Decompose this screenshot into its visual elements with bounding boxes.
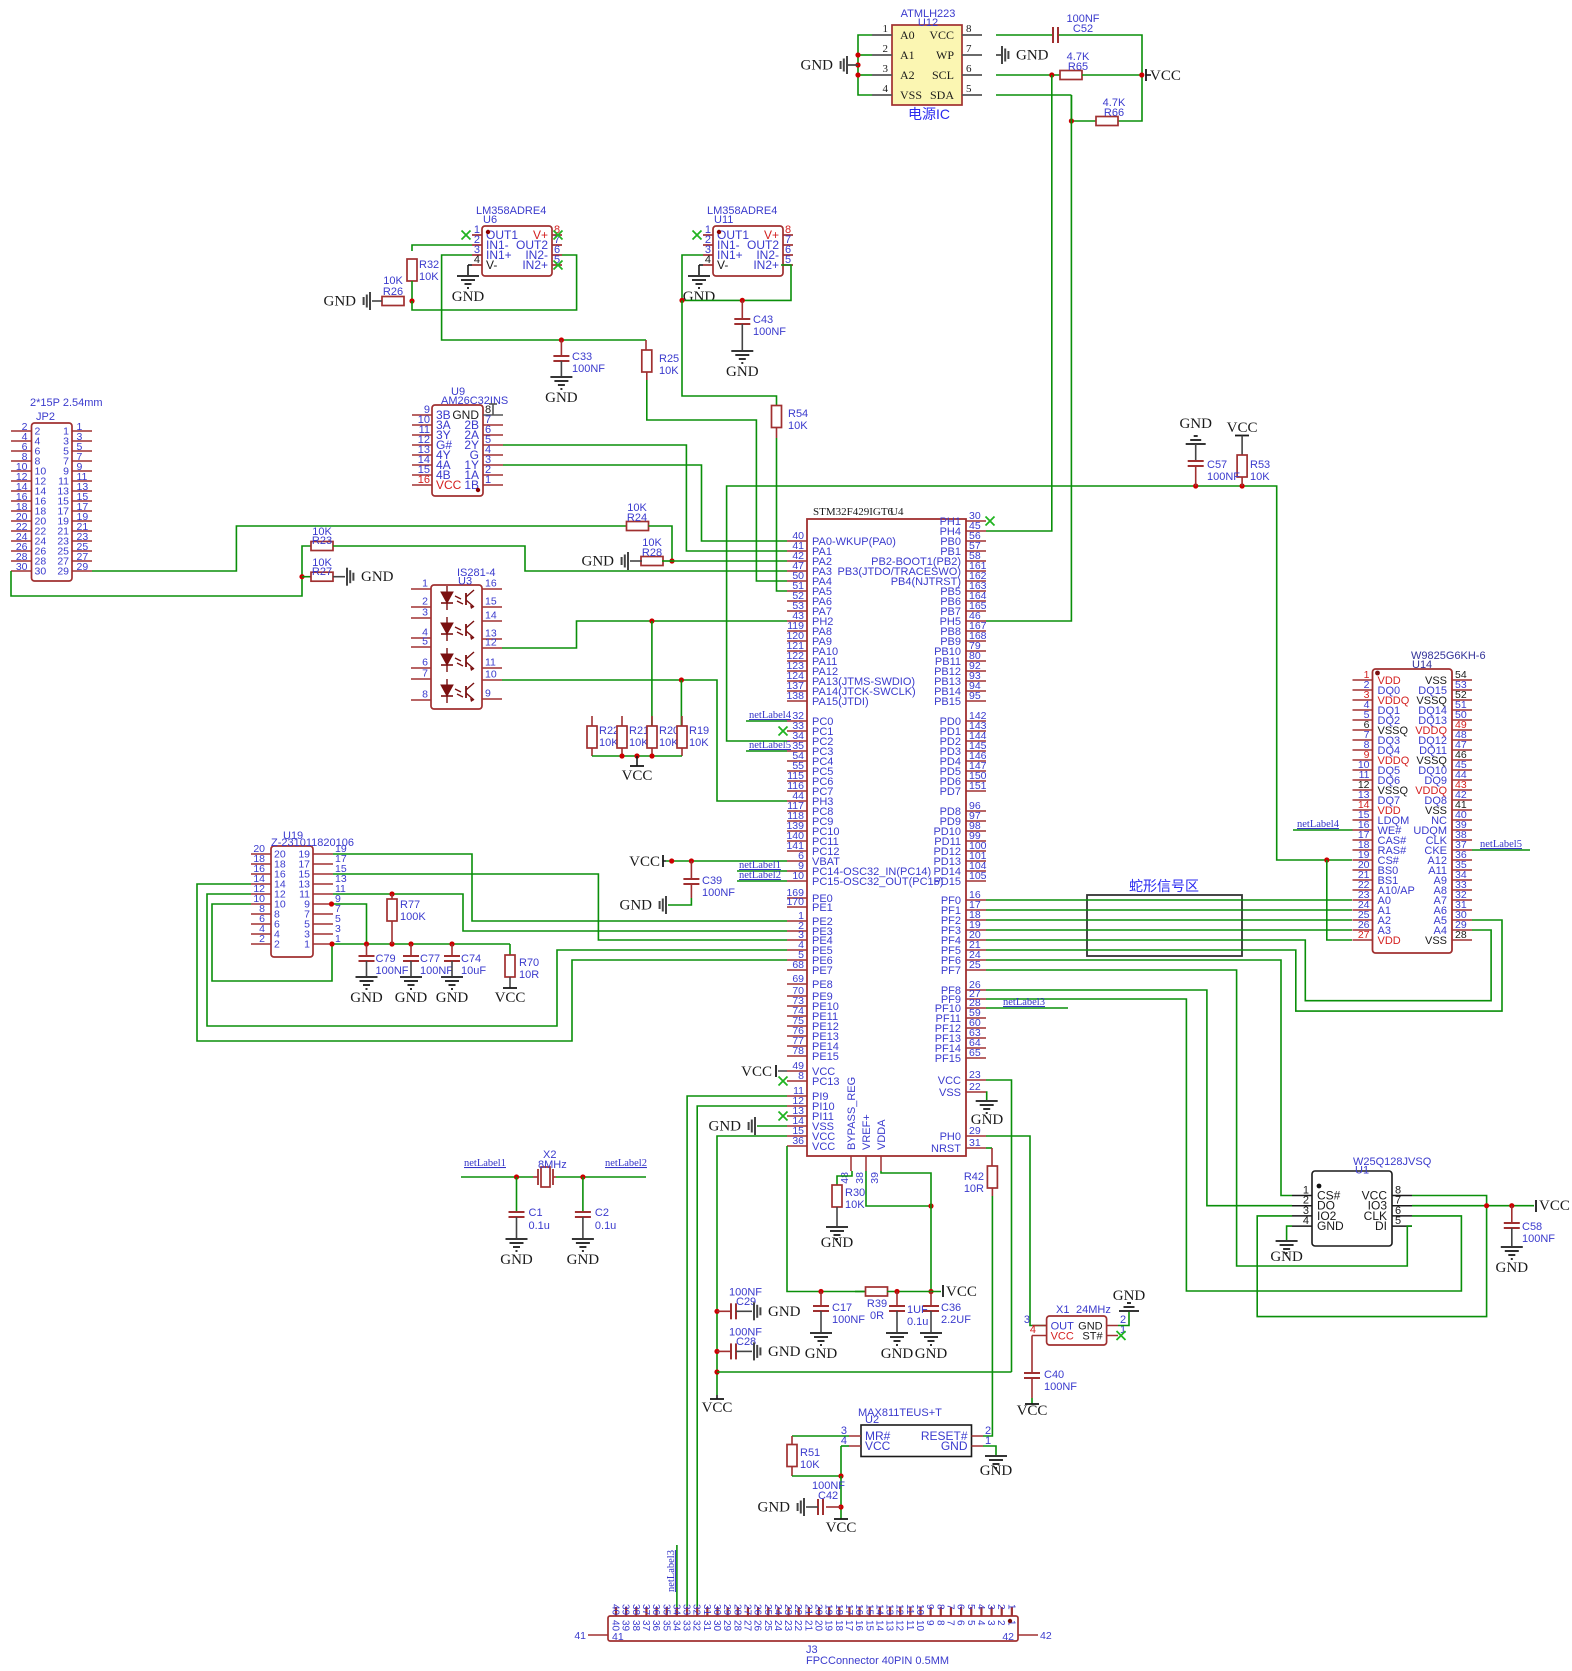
svg-text:GND: GND bbox=[350, 990, 383, 1006]
svg-text:IN2+: IN2+ bbox=[522, 258, 548, 272]
svg-text:29: 29 bbox=[721, 1620, 732, 1632]
svg-text:WP: WP bbox=[936, 48, 954, 62]
svg-text:PA15(JTDI): PA15(JTDI) bbox=[812, 696, 869, 708]
svg-text:10K: 10K bbox=[800, 1459, 820, 1471]
svg-text:ST#: ST# bbox=[1082, 1331, 1103, 1343]
svg-text:36: 36 bbox=[650, 1620, 661, 1632]
svg-text:R53: R53 bbox=[1250, 459, 1270, 471]
svg-text:100NF: 100NF bbox=[1044, 1381, 1077, 1393]
svg-text:41: 41 bbox=[612, 1631, 624, 1643]
svg-text:9: 9 bbox=[924, 1620, 935, 1626]
svg-text:32: 32 bbox=[691, 1620, 702, 1632]
svg-text:JP2: JP2 bbox=[36, 411, 55, 423]
svg-text:26: 26 bbox=[752, 1620, 763, 1632]
svg-text:4: 4 bbox=[883, 83, 889, 95]
svg-text:C42: C42 bbox=[818, 1490, 838, 1502]
svg-text:170: 170 bbox=[786, 896, 804, 908]
svg-text:13: 13 bbox=[884, 1620, 895, 1632]
svg-text:33: 33 bbox=[681, 1604, 692, 1616]
svg-text:GND: GND bbox=[395, 990, 428, 1006]
svg-text:42: 42 bbox=[1002, 1631, 1014, 1643]
svg-text:14: 14 bbox=[873, 1620, 884, 1632]
svg-text:AM26C32INS: AM26C32INS bbox=[441, 395, 508, 407]
svg-text:R23: R23 bbox=[312, 535, 332, 547]
svg-text:VCC: VCC bbox=[946, 1284, 977, 1300]
svg-text:10K: 10K bbox=[419, 271, 439, 283]
svg-text:U11: U11 bbox=[714, 214, 733, 226]
svg-text:R39: R39 bbox=[867, 1298, 887, 1310]
svg-text:38: 38 bbox=[630, 1620, 641, 1632]
svg-text:40: 40 bbox=[610, 1604, 621, 1616]
svg-text:36: 36 bbox=[650, 1604, 661, 1616]
svg-text:GND: GND bbox=[436, 990, 469, 1006]
svg-text:24: 24 bbox=[772, 1604, 783, 1616]
svg-text:38: 38 bbox=[630, 1604, 641, 1616]
svg-text:39: 39 bbox=[869, 1172, 881, 1184]
svg-text:10K: 10K bbox=[659, 365, 679, 377]
svg-text:GND: GND bbox=[801, 58, 834, 74]
svg-text:3: 3 bbox=[422, 607, 428, 619]
svg-text:VCC: VCC bbox=[1539, 1198, 1570, 1214]
svg-text:VCC: VCC bbox=[938, 1075, 961, 1087]
svg-text:PE8: PE8 bbox=[812, 979, 833, 991]
svg-text:20: 20 bbox=[813, 1604, 824, 1616]
svg-text:0.1u: 0.1u bbox=[529, 1220, 550, 1232]
svg-text:100NF: 100NF bbox=[1207, 471, 1240, 483]
svg-text:netLabel5: netLabel5 bbox=[1480, 839, 1522, 850]
svg-text:GND: GND bbox=[768, 1304, 801, 1320]
svg-text:GND: GND bbox=[620, 898, 653, 914]
svg-text:GND: GND bbox=[1270, 1249, 1303, 1265]
svg-text:27: 27 bbox=[741, 1604, 752, 1616]
svg-text:VDD: VDD bbox=[1378, 935, 1401, 947]
svg-text:GND: GND bbox=[324, 294, 357, 310]
svg-text:29: 29 bbox=[721, 1604, 732, 1616]
svg-text:VCC: VCC bbox=[826, 1520, 857, 1536]
svg-text:7: 7 bbox=[422, 668, 428, 680]
svg-text:IN2+: IN2+ bbox=[753, 258, 779, 272]
svg-text:PH0: PH0 bbox=[940, 1131, 961, 1143]
svg-text:10: 10 bbox=[485, 669, 497, 681]
svg-text:7: 7 bbox=[966, 43, 972, 55]
svg-text:5: 5 bbox=[965, 1620, 976, 1626]
svg-text:PF15: PF15 bbox=[935, 1053, 961, 1065]
svg-text:17: 17 bbox=[843, 1620, 854, 1632]
svg-text:R77: R77 bbox=[400, 899, 420, 911]
svg-text:VCC: VCC bbox=[1051, 1331, 1074, 1343]
svg-text:R25: R25 bbox=[659, 353, 679, 365]
svg-text:23: 23 bbox=[969, 1069, 981, 1081]
svg-text:FPCConnector 40PIN 0.5MM: FPCConnector 40PIN 0.5MM bbox=[806, 1655, 949, 1667]
svg-text:VDDA: VDDA bbox=[876, 1119, 888, 1150]
svg-text:A2: A2 bbox=[900, 68, 915, 82]
svg-text:3: 3 bbox=[883, 63, 889, 75]
svg-text:SDA: SDA bbox=[930, 88, 954, 102]
svg-text:GND: GND bbox=[567, 1252, 600, 1268]
svg-text:10K: 10K bbox=[845, 1199, 865, 1211]
svg-text:VCC: VCC bbox=[741, 1064, 772, 1080]
svg-text:R28: R28 bbox=[642, 547, 662, 559]
svg-text:C77: C77 bbox=[420, 953, 440, 965]
svg-text:VCC: VCC bbox=[436, 478, 462, 492]
svg-text:25: 25 bbox=[762, 1620, 773, 1632]
svg-text:12: 12 bbox=[894, 1604, 905, 1616]
svg-text:2*15P 2.54mm: 2*15P 2.54mm bbox=[30, 397, 103, 409]
svg-text:30: 30 bbox=[711, 1604, 722, 1616]
svg-text:1: 1 bbox=[422, 578, 428, 590]
svg-text:10uF: 10uF bbox=[461, 965, 486, 977]
svg-text:GND: GND bbox=[821, 1235, 854, 1251]
svg-text:R26: R26 bbox=[383, 286, 403, 298]
svg-text:VSS: VSS bbox=[900, 88, 922, 102]
svg-text:R24: R24 bbox=[627, 512, 647, 524]
svg-text:U6: U6 bbox=[483, 214, 497, 226]
svg-text:4: 4 bbox=[975, 1604, 986, 1610]
svg-text:DI: DI bbox=[1375, 1219, 1387, 1233]
svg-text:R54: R54 bbox=[788, 408, 808, 420]
svg-text:9: 9 bbox=[485, 688, 491, 700]
svg-text:8: 8 bbox=[798, 1070, 804, 1082]
svg-text:24: 24 bbox=[772, 1620, 783, 1632]
svg-text:C39: C39 bbox=[702, 875, 722, 887]
svg-text:15: 15 bbox=[485, 596, 497, 608]
svg-text:25: 25 bbox=[969, 959, 981, 971]
svg-text:6: 6 bbox=[955, 1620, 966, 1626]
svg-text:C57: C57 bbox=[1207, 459, 1227, 471]
svg-text:10K: 10K bbox=[1250, 471, 1270, 483]
svg-text:37: 37 bbox=[640, 1604, 651, 1616]
svg-text:7: 7 bbox=[944, 1620, 955, 1626]
svg-text:48: 48 bbox=[839, 1172, 851, 1184]
svg-text:C43: C43 bbox=[753, 314, 773, 326]
svg-text:C17: C17 bbox=[832, 1302, 852, 1314]
svg-text:34: 34 bbox=[670, 1620, 681, 1632]
svg-text:33: 33 bbox=[681, 1620, 692, 1632]
svg-text:19: 19 bbox=[823, 1620, 834, 1632]
svg-text:GND: GND bbox=[545, 390, 578, 406]
svg-text:GND: GND bbox=[452, 289, 485, 305]
svg-text:netLabel3: netLabel3 bbox=[666, 1550, 677, 1592]
svg-text:VCC: VCC bbox=[929, 28, 954, 42]
svg-text:GND: GND bbox=[768, 1344, 801, 1360]
svg-text:78: 78 bbox=[792, 1045, 804, 1057]
svg-text:PC13: PC13 bbox=[812, 1076, 840, 1088]
svg-text:5: 5 bbox=[422, 636, 428, 648]
svg-text:18: 18 bbox=[833, 1620, 844, 1632]
svg-text:22: 22 bbox=[969, 1081, 981, 1093]
svg-text:35: 35 bbox=[660, 1604, 671, 1616]
svg-text:R70: R70 bbox=[519, 957, 539, 969]
svg-text:C33: C33 bbox=[572, 351, 592, 363]
svg-text:100NF: 100NF bbox=[572, 363, 605, 375]
svg-text:PE15: PE15 bbox=[812, 1051, 839, 1063]
svg-text:31: 31 bbox=[701, 1620, 712, 1632]
svg-text:0.1u: 0.1u bbox=[595, 1220, 616, 1232]
svg-text:14: 14 bbox=[873, 1604, 884, 1616]
svg-text:8: 8 bbox=[934, 1620, 945, 1626]
svg-text:4: 4 bbox=[705, 254, 711, 266]
svg-text:100NF: 100NF bbox=[1522, 1233, 1555, 1245]
svg-text:31: 31 bbox=[969, 1137, 981, 1149]
svg-text:C40: C40 bbox=[1044, 1369, 1064, 1381]
svg-text:1: 1 bbox=[1005, 1604, 1016, 1610]
svg-text:30: 30 bbox=[711, 1620, 722, 1632]
svg-text:C74: C74 bbox=[461, 953, 481, 965]
svg-text:2: 2 bbox=[259, 933, 265, 945]
svg-text:16: 16 bbox=[485, 578, 497, 590]
svg-text:netLabel2: netLabel2 bbox=[605, 1158, 647, 1169]
svg-text:C1: C1 bbox=[529, 1207, 543, 1219]
svg-text:16: 16 bbox=[418, 474, 430, 486]
svg-text:100NF: 100NF bbox=[702, 887, 735, 899]
svg-text:21: 21 bbox=[802, 1604, 813, 1616]
svg-text:5: 5 bbox=[966, 83, 972, 95]
svg-text:GND: GND bbox=[1317, 1219, 1344, 1233]
svg-text:VCC: VCC bbox=[629, 854, 660, 870]
svg-text:39: 39 bbox=[620, 1604, 631, 1616]
svg-text:VSS: VSS bbox=[939, 1087, 961, 1099]
svg-text:105: 105 bbox=[969, 870, 987, 882]
svg-text:VCC: VCC bbox=[622, 768, 653, 784]
svg-text:X1: X1 bbox=[1056, 1304, 1069, 1316]
svg-text:10R: 10R bbox=[519, 969, 539, 981]
svg-text:100NF: 100NF bbox=[420, 965, 453, 977]
svg-text:V-: V- bbox=[486, 258, 497, 272]
svg-text:PB15: PB15 bbox=[934, 696, 961, 708]
svg-text:36: 36 bbox=[792, 1135, 804, 1147]
svg-text:R30: R30 bbox=[845, 1187, 865, 1199]
svg-text:4: 4 bbox=[975, 1620, 986, 1626]
svg-text:STM32F429IGT6: STM32F429IGT6 bbox=[813, 506, 894, 518]
svg-text:5: 5 bbox=[1395, 1215, 1401, 1227]
svg-text:电源IC: 电源IC bbox=[908, 106, 950, 122]
svg-text:U4: U4 bbox=[890, 506, 904, 518]
svg-text:GND: GND bbox=[361, 569, 394, 585]
svg-text:netLabel2: netLabel2 bbox=[739, 870, 781, 881]
svg-text:32: 32 bbox=[691, 1604, 702, 1616]
svg-text:25: 25 bbox=[762, 1604, 773, 1616]
svg-text:21: 21 bbox=[802, 1620, 813, 1632]
svg-text:GND: GND bbox=[726, 364, 759, 380]
svg-text:1: 1 bbox=[883, 23, 889, 35]
svg-text:23: 23 bbox=[782, 1604, 793, 1616]
svg-text:netLabel3: netLabel3 bbox=[1003, 997, 1045, 1008]
svg-text:15: 15 bbox=[863, 1604, 874, 1616]
svg-text:GND: GND bbox=[500, 1252, 533, 1268]
svg-text:C79: C79 bbox=[376, 953, 396, 965]
svg-text:38: 38 bbox=[854, 1172, 866, 1184]
svg-text:GND: GND bbox=[683, 289, 716, 305]
svg-text:100NF: 100NF bbox=[832, 1314, 865, 1326]
svg-text:C58: C58 bbox=[1522, 1221, 1542, 1233]
svg-text:2: 2 bbox=[995, 1620, 1006, 1626]
svg-text:20: 20 bbox=[813, 1620, 824, 1632]
svg-text:5: 5 bbox=[965, 1604, 976, 1610]
svg-text:VCC: VCC bbox=[812, 1141, 835, 1153]
svg-text:41: 41 bbox=[574, 1630, 586, 1642]
svg-text:GND: GND bbox=[881, 1346, 914, 1362]
svg-text:95: 95 bbox=[969, 690, 981, 702]
svg-text:151: 151 bbox=[969, 780, 987, 792]
svg-text:8: 8 bbox=[422, 689, 428, 701]
svg-text:GND: GND bbox=[1179, 416, 1212, 432]
svg-text:11: 11 bbox=[904, 1604, 915, 1615]
svg-text:10K: 10K bbox=[689, 737, 709, 749]
svg-text:42: 42 bbox=[1040, 1630, 1052, 1642]
svg-text:10: 10 bbox=[792, 870, 804, 882]
svg-text:10R: 10R bbox=[964, 1183, 984, 1195]
svg-text:4: 4 bbox=[474, 254, 480, 266]
svg-text:GND: GND bbox=[971, 1112, 1004, 1128]
svg-text:3: 3 bbox=[985, 1620, 996, 1626]
svg-text:VREF+: VREF+ bbox=[861, 1114, 873, 1150]
svg-text:GND: GND bbox=[1496, 1260, 1529, 1276]
svg-text:R51: R51 bbox=[800, 1447, 820, 1459]
svg-text:0.1u: 0.1u bbox=[907, 1316, 928, 1328]
svg-text:V-: V- bbox=[717, 258, 728, 272]
svg-text:R19: R19 bbox=[689, 725, 709, 737]
svg-text:VCC: VCC bbox=[1227, 420, 1258, 436]
svg-text:蛇形信号区: 蛇形信号区 bbox=[1129, 878, 1199, 894]
svg-text:GND: GND bbox=[582, 554, 615, 570]
svg-text:1: 1 bbox=[304, 939, 310, 951]
svg-text:2: 2 bbox=[995, 1604, 1006, 1610]
svg-text:R65: R65 bbox=[1068, 61, 1088, 73]
svg-text:24MHz: 24MHz bbox=[1076, 1304, 1111, 1316]
svg-text:40: 40 bbox=[610, 1620, 621, 1632]
svg-text:0R: 0R bbox=[870, 1310, 884, 1322]
svg-text:30: 30 bbox=[16, 561, 28, 573]
svg-text:14: 14 bbox=[485, 610, 497, 622]
svg-text:R32: R32 bbox=[419, 259, 439, 271]
svg-text:4: 4 bbox=[1303, 1215, 1309, 1227]
svg-text:U3: U3 bbox=[458, 576, 472, 588]
svg-text:6: 6 bbox=[966, 63, 972, 75]
svg-text:GND: GND bbox=[915, 1346, 948, 1362]
svg-text:11: 11 bbox=[485, 657, 496, 669]
svg-text:PC15-OSC32_OUT(PC15): PC15-OSC32_OUT(PC15) bbox=[812, 876, 943, 888]
svg-text:U1: U1 bbox=[1355, 1165, 1369, 1177]
svg-text:VCC: VCC bbox=[1150, 68, 1181, 84]
svg-text:13: 13 bbox=[884, 1604, 895, 1616]
svg-text:22: 22 bbox=[792, 1620, 803, 1632]
svg-text:C52: C52 bbox=[1073, 23, 1093, 35]
svg-text:138: 138 bbox=[786, 690, 804, 702]
svg-text:11: 11 bbox=[904, 1620, 915, 1631]
svg-text:68: 68 bbox=[792, 959, 804, 971]
svg-text:100NF: 100NF bbox=[376, 965, 409, 977]
svg-text:PE1: PE1 bbox=[812, 902, 833, 914]
svg-text:PD7: PD7 bbox=[940, 786, 961, 798]
svg-text:GND: GND bbox=[758, 1500, 791, 1516]
svg-text:C2: C2 bbox=[595, 1207, 609, 1219]
svg-text:2: 2 bbox=[274, 939, 280, 951]
svg-text:17: 17 bbox=[843, 1604, 854, 1616]
svg-text:29: 29 bbox=[77, 561, 89, 573]
svg-text:29: 29 bbox=[57, 566, 69, 578]
svg-text:12: 12 bbox=[485, 637, 497, 649]
svg-text:30: 30 bbox=[35, 566, 47, 578]
svg-text:netLabel4: netLabel4 bbox=[1297, 819, 1340, 830]
svg-text:100K: 100K bbox=[400, 911, 426, 923]
svg-text:2.2UF: 2.2UF bbox=[941, 1314, 971, 1326]
svg-text:18: 18 bbox=[833, 1604, 844, 1616]
svg-text:netLabel1: netLabel1 bbox=[464, 1158, 506, 1169]
svg-text:A0: A0 bbox=[900, 28, 915, 42]
svg-text:SCL: SCL bbox=[932, 68, 954, 82]
svg-text:A1: A1 bbox=[900, 48, 915, 62]
svg-text:8: 8 bbox=[966, 23, 972, 35]
svg-text:6: 6 bbox=[955, 1604, 966, 1610]
svg-text:16: 16 bbox=[853, 1620, 864, 1632]
svg-text:VCC: VCC bbox=[495, 990, 526, 1006]
svg-text:1: 1 bbox=[485, 474, 491, 486]
svg-text:4: 4 bbox=[1030, 1324, 1036, 1336]
svg-text:19: 19 bbox=[823, 1604, 834, 1616]
svg-text:39: 39 bbox=[620, 1620, 631, 1632]
svg-text:15: 15 bbox=[863, 1620, 874, 1632]
svg-text:netLabel4: netLabel4 bbox=[749, 710, 792, 721]
svg-text:8: 8 bbox=[934, 1604, 945, 1610]
svg-text:U2: U2 bbox=[865, 1414, 879, 1426]
svg-text:R27: R27 bbox=[312, 566, 332, 578]
svg-text:GND: GND bbox=[709, 1119, 742, 1135]
svg-text:28: 28 bbox=[731, 1620, 742, 1632]
svg-text:35: 35 bbox=[660, 1620, 671, 1632]
svg-text:VCC: VCC bbox=[1017, 1403, 1048, 1419]
svg-text:R66: R66 bbox=[1104, 107, 1124, 119]
svg-text:37: 37 bbox=[640, 1620, 651, 1632]
svg-text:GND: GND bbox=[980, 1463, 1013, 1479]
svg-text:PE7: PE7 bbox=[812, 965, 833, 977]
svg-text:12: 12 bbox=[894, 1620, 905, 1632]
svg-text:GND: GND bbox=[941, 1439, 968, 1453]
svg-text:BYPASS_REG: BYPASS_REG bbox=[846, 1077, 858, 1150]
svg-text:23: 23 bbox=[782, 1620, 793, 1632]
svg-text:VCC: VCC bbox=[865, 1439, 891, 1453]
svg-text:2: 2 bbox=[883, 43, 889, 55]
svg-text:GND: GND bbox=[1113, 1288, 1146, 1304]
svg-text:27: 27 bbox=[741, 1620, 752, 1632]
svg-text:69: 69 bbox=[792, 973, 804, 985]
svg-text:PD15: PD15 bbox=[933, 876, 961, 888]
svg-text:7: 7 bbox=[944, 1604, 955, 1610]
svg-text:GND: GND bbox=[805, 1346, 838, 1362]
svg-text:31: 31 bbox=[701, 1604, 712, 1616]
svg-text:VCC: VCC bbox=[702, 1400, 733, 1416]
svg-text:10: 10 bbox=[914, 1620, 925, 1632]
svg-text:10K: 10K bbox=[788, 420, 808, 432]
svg-text:16: 16 bbox=[853, 1604, 864, 1616]
svg-text:10: 10 bbox=[914, 1604, 925, 1616]
svg-text:C36: C36 bbox=[941, 1302, 961, 1314]
svg-text:PF7: PF7 bbox=[941, 965, 961, 977]
svg-text:GND: GND bbox=[1016, 48, 1049, 64]
svg-text:U14: U14 bbox=[1412, 659, 1432, 671]
svg-text:65: 65 bbox=[969, 1047, 981, 1059]
svg-text:26: 26 bbox=[752, 1604, 763, 1616]
svg-text:VSS: VSS bbox=[1425, 935, 1447, 947]
svg-text:28: 28 bbox=[731, 1604, 742, 1616]
svg-text:27: 27 bbox=[1358, 929, 1370, 941]
svg-text:3: 3 bbox=[985, 1604, 996, 1610]
svg-text:9: 9 bbox=[924, 1604, 935, 1610]
svg-text:R42: R42 bbox=[964, 1171, 984, 1183]
svg-text:NRST: NRST bbox=[931, 1143, 961, 1155]
svg-text:22: 22 bbox=[792, 1604, 803, 1616]
svg-text:34: 34 bbox=[670, 1604, 681, 1616]
svg-text:8MHz: 8MHz bbox=[538, 1159, 567, 1171]
